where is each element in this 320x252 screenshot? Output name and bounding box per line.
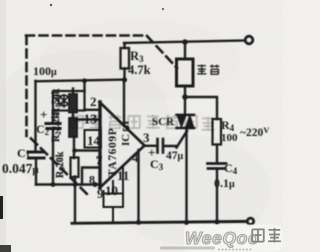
svg-text:100μ: 100μ — [33, 64, 57, 78]
svg-text:47μ: 47μ — [166, 150, 184, 162]
wire IC pin 8 loop — [82, 168, 99, 185]
SCR triac left triangle — [177, 115, 186, 128]
wire C3 to gate — [164, 145, 178, 147]
resistor R3 — [121, 48, 130, 69]
watermark center company name CJK — [71, 115, 214, 131]
junction load bottom node — [182, 94, 188, 100]
terminal AC bottom-right — [247, 218, 253, 224]
wire bottom rail BW2 — [72, 221, 247, 223]
dashed module boundary top edge — [26, 34, 147, 37]
wire IC pin 13 — [74, 118, 100, 120]
svg-text:14: 14 — [87, 133, 101, 148]
wire load bottom lead — [184, 86, 186, 97]
junction rail x load branch — [182, 39, 188, 45]
svg-text:8: 8 — [89, 173, 95, 187]
svg-text:10: 10 — [105, 183, 118, 198]
junction pin 4 x bottom rail — [136, 220, 141, 225]
wire to pin 14 — [74, 149, 99, 151]
wire pins 9 10 11 loop under IC — [104, 166, 124, 207]
wire IC pin 3 output — [145, 145, 158, 147]
junction BW1 at pin 8 — [93, 182, 98, 187]
op-amp U1 TA7609P triangle left edge — [98, 102, 101, 188]
op-amp U1 TA7609P triangle slanted edges — [100, 102, 145, 188]
wire IC pin 4 lead to bottom rail — [137, 150, 139, 223]
resistor R1 — [69, 94, 77, 113]
capacitor C3 left plate — [156, 139, 159, 153]
capacitor C4 bottom plate — [208, 167, 224, 170]
wire bottom-left ground bus BW1 to IC pin 8 — [36, 183, 99, 185]
svg-text:100: 100 — [221, 132, 238, 144]
capacitor C4 top plate — [208, 162, 227, 165]
wire R1-R2 link — [72, 113, 74, 119]
wire left branch down to C1 — [34, 81, 36, 150]
wire R2-R5 link — [73, 137, 75, 158]
dashed module boundary lower-left diagonal — [31, 139, 90, 198]
load box — [177, 59, 194, 86]
wire load node to SCR anode — [184, 97, 186, 115]
wire load branch from rail — [184, 42, 186, 59]
wire SCR cathode down to bottom rail — [185, 128, 187, 223]
svg-text:R520k: R520k — [55, 151, 67, 178]
capacitor C1 top plate — [28, 151, 44, 154]
load name label fuhe CJK — [197, 64, 219, 74]
wire C4 bottom lead — [216, 169, 218, 223]
resistor R2 — [69, 118, 77, 137]
SCR triac right triangle — [186, 115, 195, 128]
junction C2 x BW1 — [51, 182, 56, 187]
svg-text:R150k: R150k — [51, 88, 63, 115]
wire sensor box to H1 — [83, 81, 85, 91]
watermark bottom-right WeeQoo weiku — [184, 225, 283, 252]
junction SCR x bottom rail — [184, 220, 189, 225]
svg-text:3: 3 — [143, 130, 150, 145]
capacitor C2 top plate — [46, 122, 60, 125]
svg-text:0.047μ: 0.047μ — [2, 161, 39, 176]
resistor R5 — [71, 158, 79, 178]
svg-text:4.7k: 4.7k — [128, 63, 151, 77]
capacitor C3 right plate — [162, 139, 165, 153]
wire top supply rail to AC terminal — [124, 41, 245, 44]
terminal AC top-right — [245, 36, 253, 44]
wire C2 top lead — [52, 111, 54, 123]
sensor box internal marks — [56, 95, 69, 107]
svg-text:7: 7 — [96, 153, 102, 167]
svg-text:R22.2k: R22.2k — [51, 113, 63, 142]
svg-text:+: + — [40, 107, 47, 122]
wire gate diagonal to SCR — [177, 131, 188, 148]
junction C4 x bottom rail — [214, 219, 219, 224]
wire IC pin 2 — [85, 109, 100, 111]
junction R3 bottom node — [122, 77, 127, 82]
wire branch to R4 — [185, 97, 217, 119]
wire from R3-bottom node down to IC pin 5 — [123, 80, 125, 124]
pin 14 box — [85, 130, 102, 148]
junction R5 top x pin14 wire — [72, 148, 77, 153]
wire R1 top lead — [72, 89, 74, 95]
SCR triac bottom bar — [177, 127, 195, 129]
resistor R4 — [213, 119, 222, 145]
svg-text:WeeQoo: WeeQoo — [185, 228, 259, 248]
svg-text:2: 2 — [90, 94, 97, 109]
SCR triac top bar — [177, 114, 195, 116]
svg-text:9: 9 — [97, 186, 104, 201]
wire R3 bottom lead — [123, 69, 125, 81]
wire loop to bottom rail — [112, 207, 114, 223]
wire R4 to C4 — [216, 145, 218, 163]
svg-text:IC: IC — [120, 134, 132, 146]
wire R5 bottom lead — [74, 177, 76, 185]
wire C2 bottom lead to BW1 — [52, 129, 54, 185]
svg-text:TA7609P: TA7609P — [107, 128, 119, 177]
touch sensor box — [53, 91, 85, 111]
dashed module boundary upper-right diagonal — [147, 36, 177, 68]
dashed module boundary left edge — [25, 36, 28, 136]
wire C1 bottom lead — [35, 159, 37, 185]
junction sensor box x H1 — [82, 78, 87, 83]
wire supply node H1 from R3 bottom to left branch — [36, 80, 125, 82]
capacitor C1 bottom plate — [29, 157, 44, 160]
junction R5 x BW1 — [73, 182, 78, 187]
wire R3 top lead — [123, 43, 125, 48]
capacitor C2 bottom plate — [47, 127, 60, 130]
svg-text:0.1μ: 0.1μ — [214, 176, 235, 190]
svg-text:4: 4 — [132, 150, 139, 165]
wire BW1 to bottom rail — [74, 185, 76, 224]
wire pin 10 stub — [112, 181, 114, 194]
